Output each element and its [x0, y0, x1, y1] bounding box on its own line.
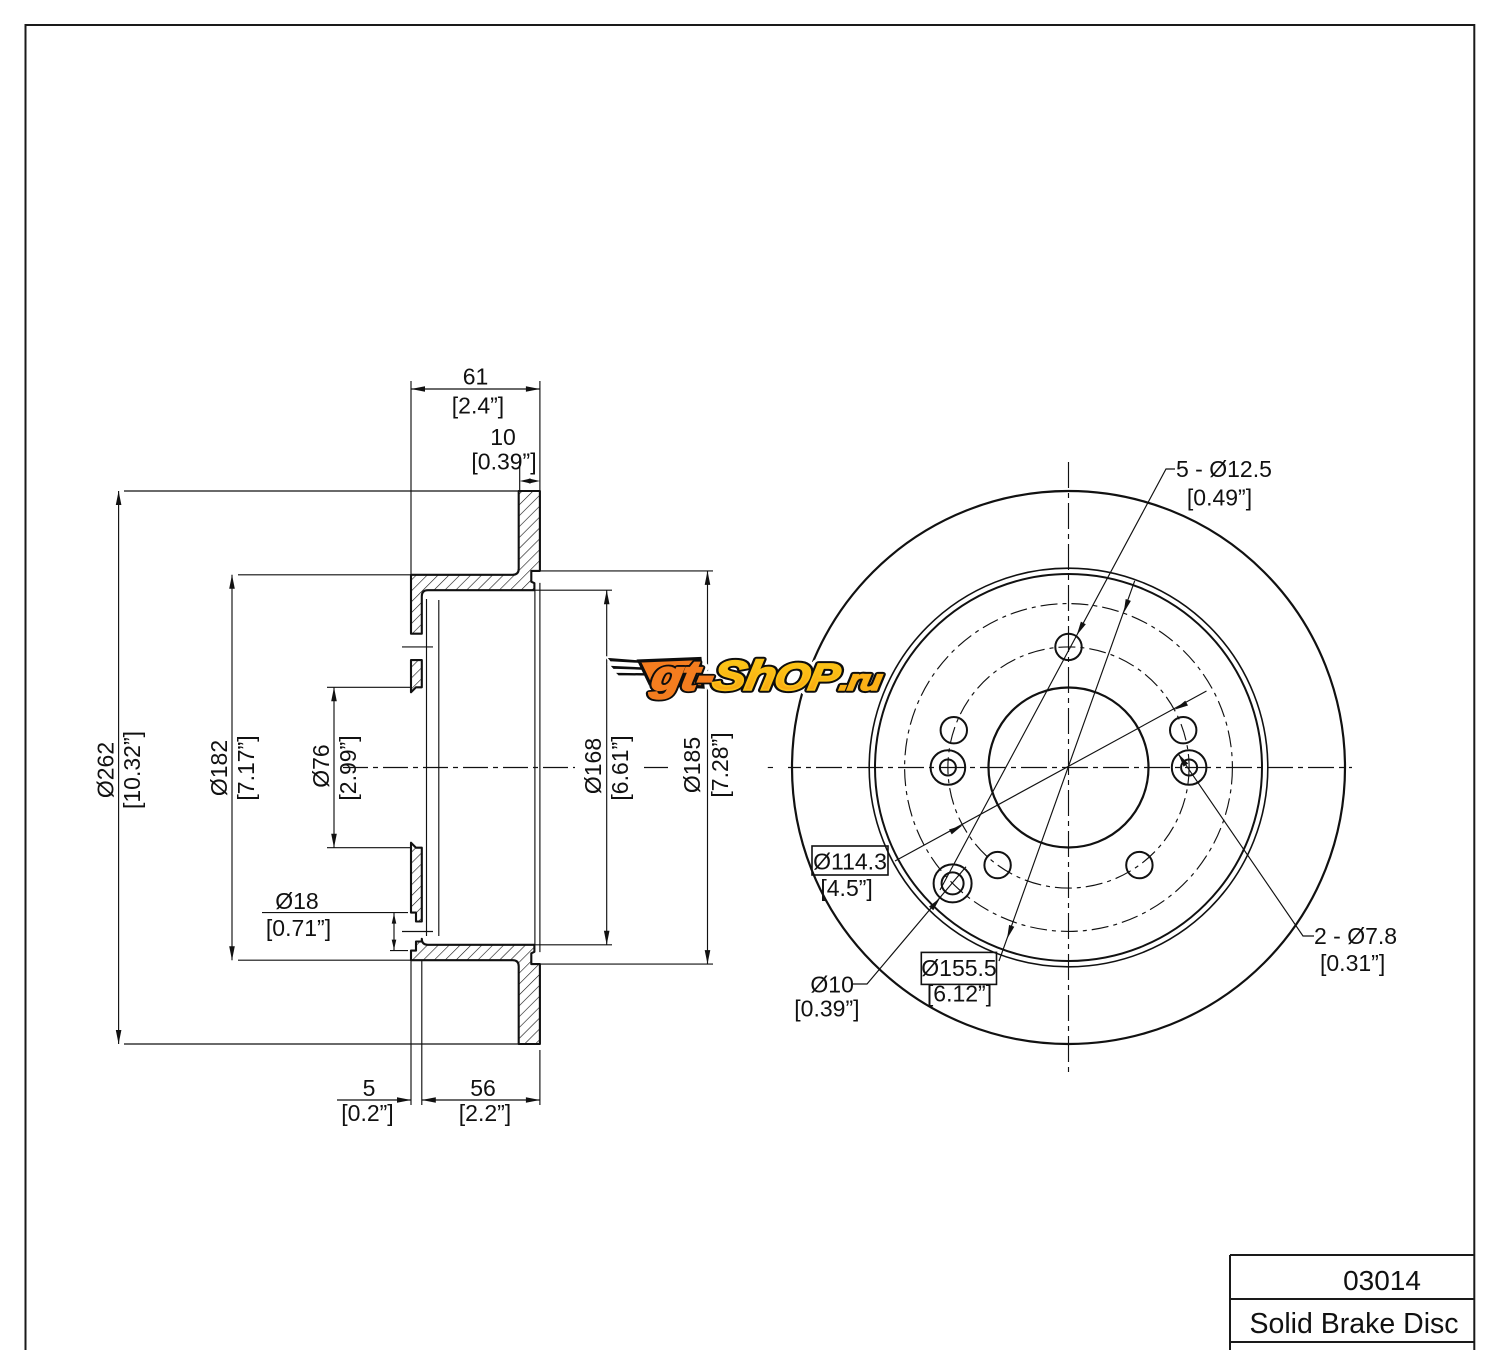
title block	[1230, 1255, 1474, 1350]
svg-text:[10.32”]: [10.32”]	[119, 731, 145, 809]
bolt hole Ø12.5 #3	[1170, 717, 1196, 743]
leader Ø10 [0.39"] set screw hole	[853, 867, 966, 984]
dimension 56 [2.2"] drum depth	[422, 1099, 540, 1101]
dimension Ø182 [7.17"] drum outer diameter	[231, 575, 233, 960]
pin hole Ø7.8 right (with counterbore)	[1181, 760, 1197, 776]
bolt hole Ø12.5 #5	[1126, 852, 1152, 878]
bolt hole centerline tick (section, top)	[402, 646, 433, 648]
svg-text:[2.4”]: [2.4”]	[452, 393, 504, 419]
front view horizontal centerline	[788, 767, 1352, 769]
svg-text:Ø114.3: Ø114.3	[813, 849, 887, 875]
svg-text:.ru: .ru	[837, 664, 885, 696]
gt-shop.ru watermark logo	[606, 652, 887, 699]
set screw hole Ø10 with Ø18 counterbore	[942, 872, 964, 894]
dimension Ø114.3 [4.5"] bolt circle	[895, 691, 1207, 861]
svg-text:2 - Ø7.8: 2 - Ø7.8	[1314, 923, 1397, 949]
svg-text:[0.31”]: [0.31”]	[1320, 950, 1385, 976]
svg-text:Ø168: Ø168	[580, 738, 606, 794]
svg-text:03014: 03014	[1343, 1265, 1421, 1296]
drum opening circles Ø182/Ø185	[875, 574, 1262, 961]
svg-text:5 - Ø12.5: 5 - Ø12.5	[1176, 456, 1272, 482]
bolt hole Ø12.5 #2	[941, 717, 967, 743]
dimension Ø76 [2.99"] center bore	[333, 687, 335, 847]
bolt circle Ø114.3 (dash-dot)	[948, 647, 1189, 888]
svg-text:Ø262: Ø262	[93, 742, 119, 798]
outer circle Ø262	[792, 491, 1345, 1044]
svg-text:[0.39”]: [0.39”]	[471, 449, 536, 475]
dimension 10 [0.39"] disc thickness	[520, 479, 531, 484]
svg-text:[7.17”]: [7.17”]	[233, 735, 259, 800]
dimension Ø168 [6.61"] drum inner diameter	[606, 590, 608, 945]
svg-text:Ø155.5: Ø155.5	[921, 955, 996, 981]
dimension Ø185 [7.28"] opening diameter	[707, 571, 709, 964]
bolt hole Ø12.5 #1	[1055, 634, 1081, 660]
svg-text:10: 10	[490, 424, 516, 450]
dimension 61 [2.4"] overall width	[411, 388, 540, 390]
svg-text:Solid Brake Disc: Solid Brake Disc	[1249, 1308, 1458, 1340]
svg-text:61: 61	[463, 364, 489, 390]
svg-text:[2.99”]: [2.99”]	[335, 735, 361, 800]
dimension Ø262 [10.32"] outer diameter	[118, 491, 120, 1044]
svg-text:[0.49”]: [0.49”]	[1187, 485, 1252, 511]
svg-text:Ø76: Ø76	[308, 744, 334, 787]
circle Ø155.5 (dash-dot)	[905, 604, 1233, 932]
svg-text:[4.5”]: [4.5”]	[820, 875, 872, 901]
dimension Ø18 [0.71"] screw hole counterbore	[393, 913, 395, 951]
leader 5-Ø12.5 [0.49"] bolt holes	[940, 469, 1175, 890]
set screw hole centerline tick (section, bottom)	[402, 931, 433, 933]
svg-text:[6.61”]: [6.61”]	[607, 735, 633, 800]
section extension lines	[124, 381, 713, 1105]
svg-text:gt-ShOP: gt-ShOP	[647, 652, 845, 699]
center bore Ø76	[989, 688, 1149, 848]
bolt hole Ø12.5 #4	[984, 852, 1010, 878]
svg-text:[0.2”]: [0.2”]	[341, 1100, 393, 1126]
pin hole Ø7.8 left (with counterbore)	[940, 760, 956, 776]
leader 2-Ø7.8 [0.31"] pin holes	[1178, 754, 1314, 937]
svg-text:5: 5	[363, 1075, 376, 1101]
svg-text:Ø182: Ø182	[206, 740, 232, 796]
dimension 5 [0.2"] plate thickness	[337, 1099, 411, 1101]
svg-text:Ø185: Ø185	[679, 737, 705, 793]
svg-text:[2.2”]: [2.2”]	[459, 1100, 511, 1126]
svg-text:[6.12”]: [6.12”]	[927, 981, 992, 1007]
brake disc cross-section (hatched cut material)	[411, 491, 540, 1044]
svg-text:Ø18: Ø18	[275, 888, 318, 914]
svg-text:[7.28”]: [7.28”]	[707, 732, 733, 797]
svg-text:56: 56	[470, 1075, 496, 1101]
dimension Ø155.5 [6.12"] screw hole circle	[999, 581, 1135, 961]
svg-text:Ø10: Ø10	[810, 972, 853, 998]
front view vertical centerline	[1068, 462, 1070, 1072]
projected hub/opening edges (thin lines)	[427, 583, 540, 952]
svg-text:[0.39”]: [0.39”]	[794, 996, 859, 1022]
svg-text:[0.71”]: [0.71”]	[266, 915, 331, 941]
section axis centerline	[343, 767, 773, 769]
